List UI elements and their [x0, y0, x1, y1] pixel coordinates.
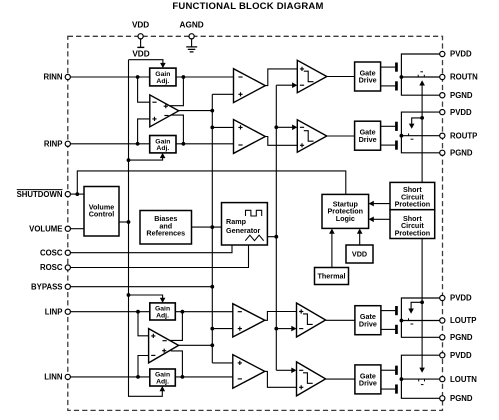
svg-text:Protection: Protection — [395, 200, 431, 209]
svg-text:Logic: Logic — [336, 214, 355, 223]
svg-text:COSC: COSC — [40, 248, 63, 257]
svg-text:Thermal: Thermal — [318, 272, 346, 281]
svg-text:PGND: PGND — [450, 333, 473, 342]
svg-text:VDD: VDD — [352, 250, 367, 259]
svg-text:LINN: LINN — [44, 373, 63, 382]
svg-text:PVDD: PVDD — [450, 294, 472, 303]
svg-text:RINP: RINP — [44, 140, 63, 149]
svg-text:LINP: LINP — [45, 307, 63, 316]
svg-text:SHUTDOWN: SHUTDOWN — [17, 190, 63, 199]
svg-text:LOUTP: LOUTP — [450, 316, 476, 325]
svg-text:LOUTN: LOUTN — [450, 375, 477, 384]
svg-text:Protection: Protection — [395, 228, 431, 237]
svg-text:Generator: Generator — [226, 226, 261, 235]
svg-text:PGND: PGND — [450, 149, 473, 158]
svg-text:Adj.: Adj. — [156, 378, 169, 385]
svg-text:Adj.: Adj. — [156, 312, 169, 319]
svg-text:PGND: PGND — [450, 394, 473, 403]
svg-text:ROUTP: ROUTP — [450, 131, 477, 140]
svg-text:Ramp: Ramp — [226, 217, 247, 226]
svg-text:ROUTN: ROUTN — [450, 73, 478, 82]
svg-text:Drive: Drive — [359, 135, 377, 144]
svg-text:References: References — [146, 229, 185, 238]
svg-text:AGND: AGND — [180, 21, 204, 30]
svg-text:VDD: VDD — [132, 50, 149, 59]
svg-text:PVDD: PVDD — [450, 108, 472, 117]
svg-text:VOLUME: VOLUME — [29, 224, 62, 233]
svg-text:BYPASS: BYPASS — [31, 282, 62, 291]
svg-text:Adj.: Adj. — [156, 145, 169, 152]
svg-text:Adj.: Adj. — [156, 78, 169, 85]
svg-text:FUNCTIONAL BLOCK DIAGRAM: FUNCTIONAL BLOCK DIAGRAM — [172, 1, 323, 12]
svg-text:ROSC: ROSC — [40, 263, 63, 272]
svg-text:PGND: PGND — [450, 91, 473, 100]
svg-text:Drive: Drive — [359, 379, 377, 388]
svg-text:RINN: RINN — [43, 73, 62, 82]
svg-text:PVDD: PVDD — [450, 351, 472, 360]
svg-text:Drive: Drive — [359, 76, 377, 85]
svg-text:VDD: VDD — [132, 21, 149, 30]
svg-text:PVDD: PVDD — [450, 50, 472, 59]
svg-text:Drive: Drive — [359, 319, 377, 328]
svg-text:Control: Control — [89, 210, 115, 219]
